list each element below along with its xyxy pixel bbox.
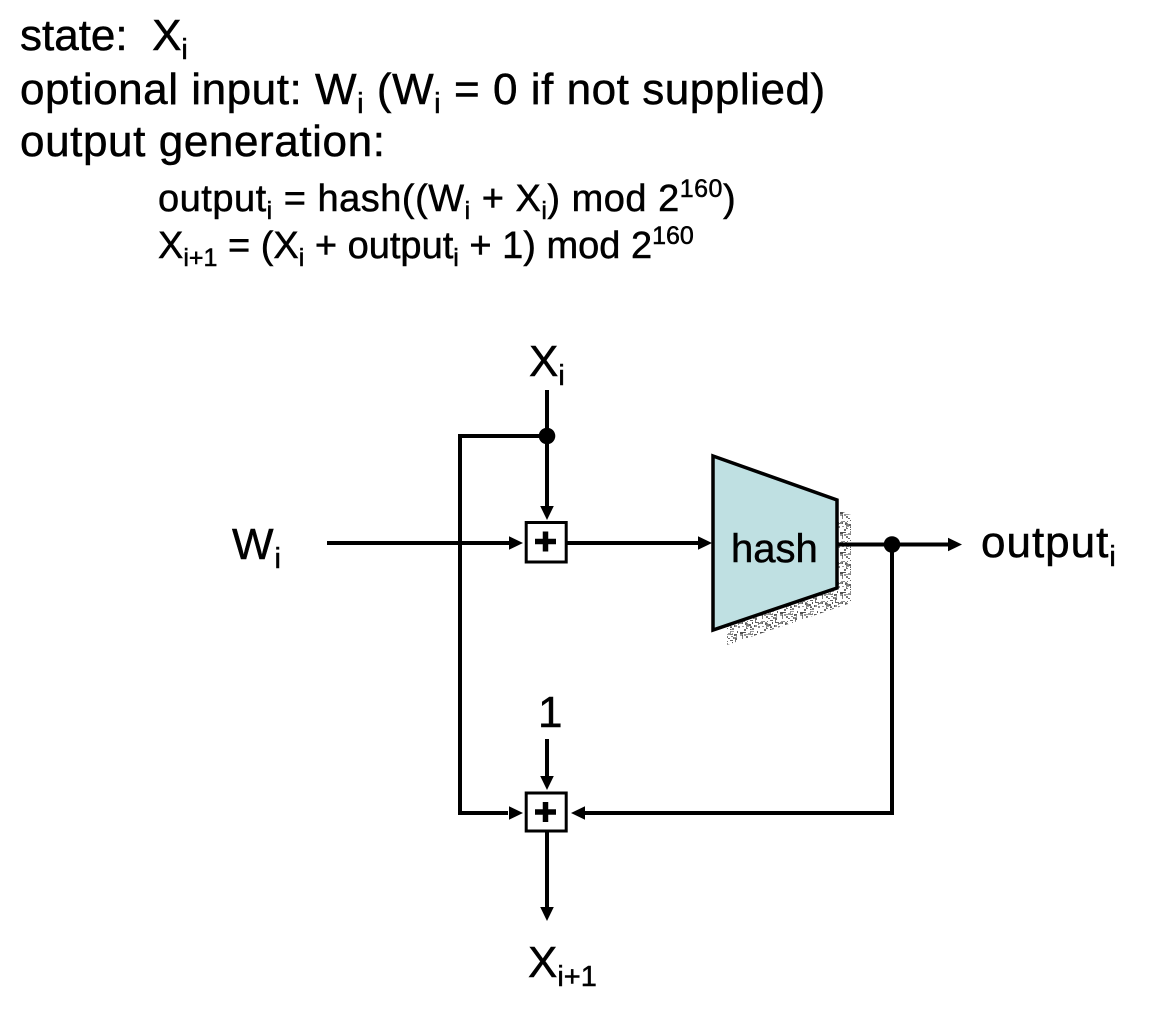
svg-text:state: Xi: state: Xi [20, 11, 188, 66]
wire adder 1 to hash [566, 536, 712, 550]
svg-text:Xi: Xi [529, 337, 565, 392]
svg-text:hash: hash [731, 527, 818, 571]
junction dot on Xi wire [539, 428, 556, 445]
svg-text:output generation:: output generation: [20, 117, 386, 166]
svg-text:outputi: outputi [981, 518, 1117, 573]
wire feedback left: from junction down to adder 2 [460, 436, 547, 820]
node label Wi [232, 520, 282, 575]
hash block trapezoid [713, 456, 837, 630]
svg-text:Xi+1: Xi+1 [528, 938, 597, 993]
hash block shadow [727, 471, 851, 645]
node label Xi [529, 337, 565, 392]
adder box 1 [526, 523, 566, 563]
wire feedback right: from output junction down to adder 2 [571, 545, 892, 820]
plus sign adder 2 [535, 802, 556, 822]
wire adder 2 to Xi+1 output [540, 832, 554, 921]
junction dot on output wire [884, 536, 901, 553]
text line 4: output formula [158, 175, 736, 225]
svg-text:Wi: Wi [232, 520, 282, 575]
plus sign adder 1 [535, 532, 556, 552]
adder box 2 [526, 793, 566, 831]
text line 5: state update formula [158, 222, 694, 272]
node label Xi+1 [528, 938, 597, 993]
text line 1: state: Xi [20, 11, 188, 66]
svg-text:optional input: Wi (Wi = 0 if: optional input: Wi (Wi = 0 if not suppli… [20, 65, 826, 120]
text line 3: output generation [20, 117, 386, 166]
wire Wi input horizontal [327, 536, 523, 550]
svg-text:outputi = hash((Wi + Xi) mod 2: outputi = hash((Wi + Xi) mod 2160) [158, 175, 736, 225]
node label output i [981, 518, 1117, 573]
svg-text:Xi+1 = (Xi + outputi + 1) mod: Xi+1 = (Xi + outputi + 1) mod 2160 [158, 222, 694, 272]
text line 2: optional input [20, 65, 826, 120]
wire Xi input vertical [540, 390, 554, 520]
wire hash to output [837, 538, 962, 552]
wire constant 1 into adder 2 [540, 739, 554, 790]
svg-text:1: 1 [538, 688, 562, 737]
